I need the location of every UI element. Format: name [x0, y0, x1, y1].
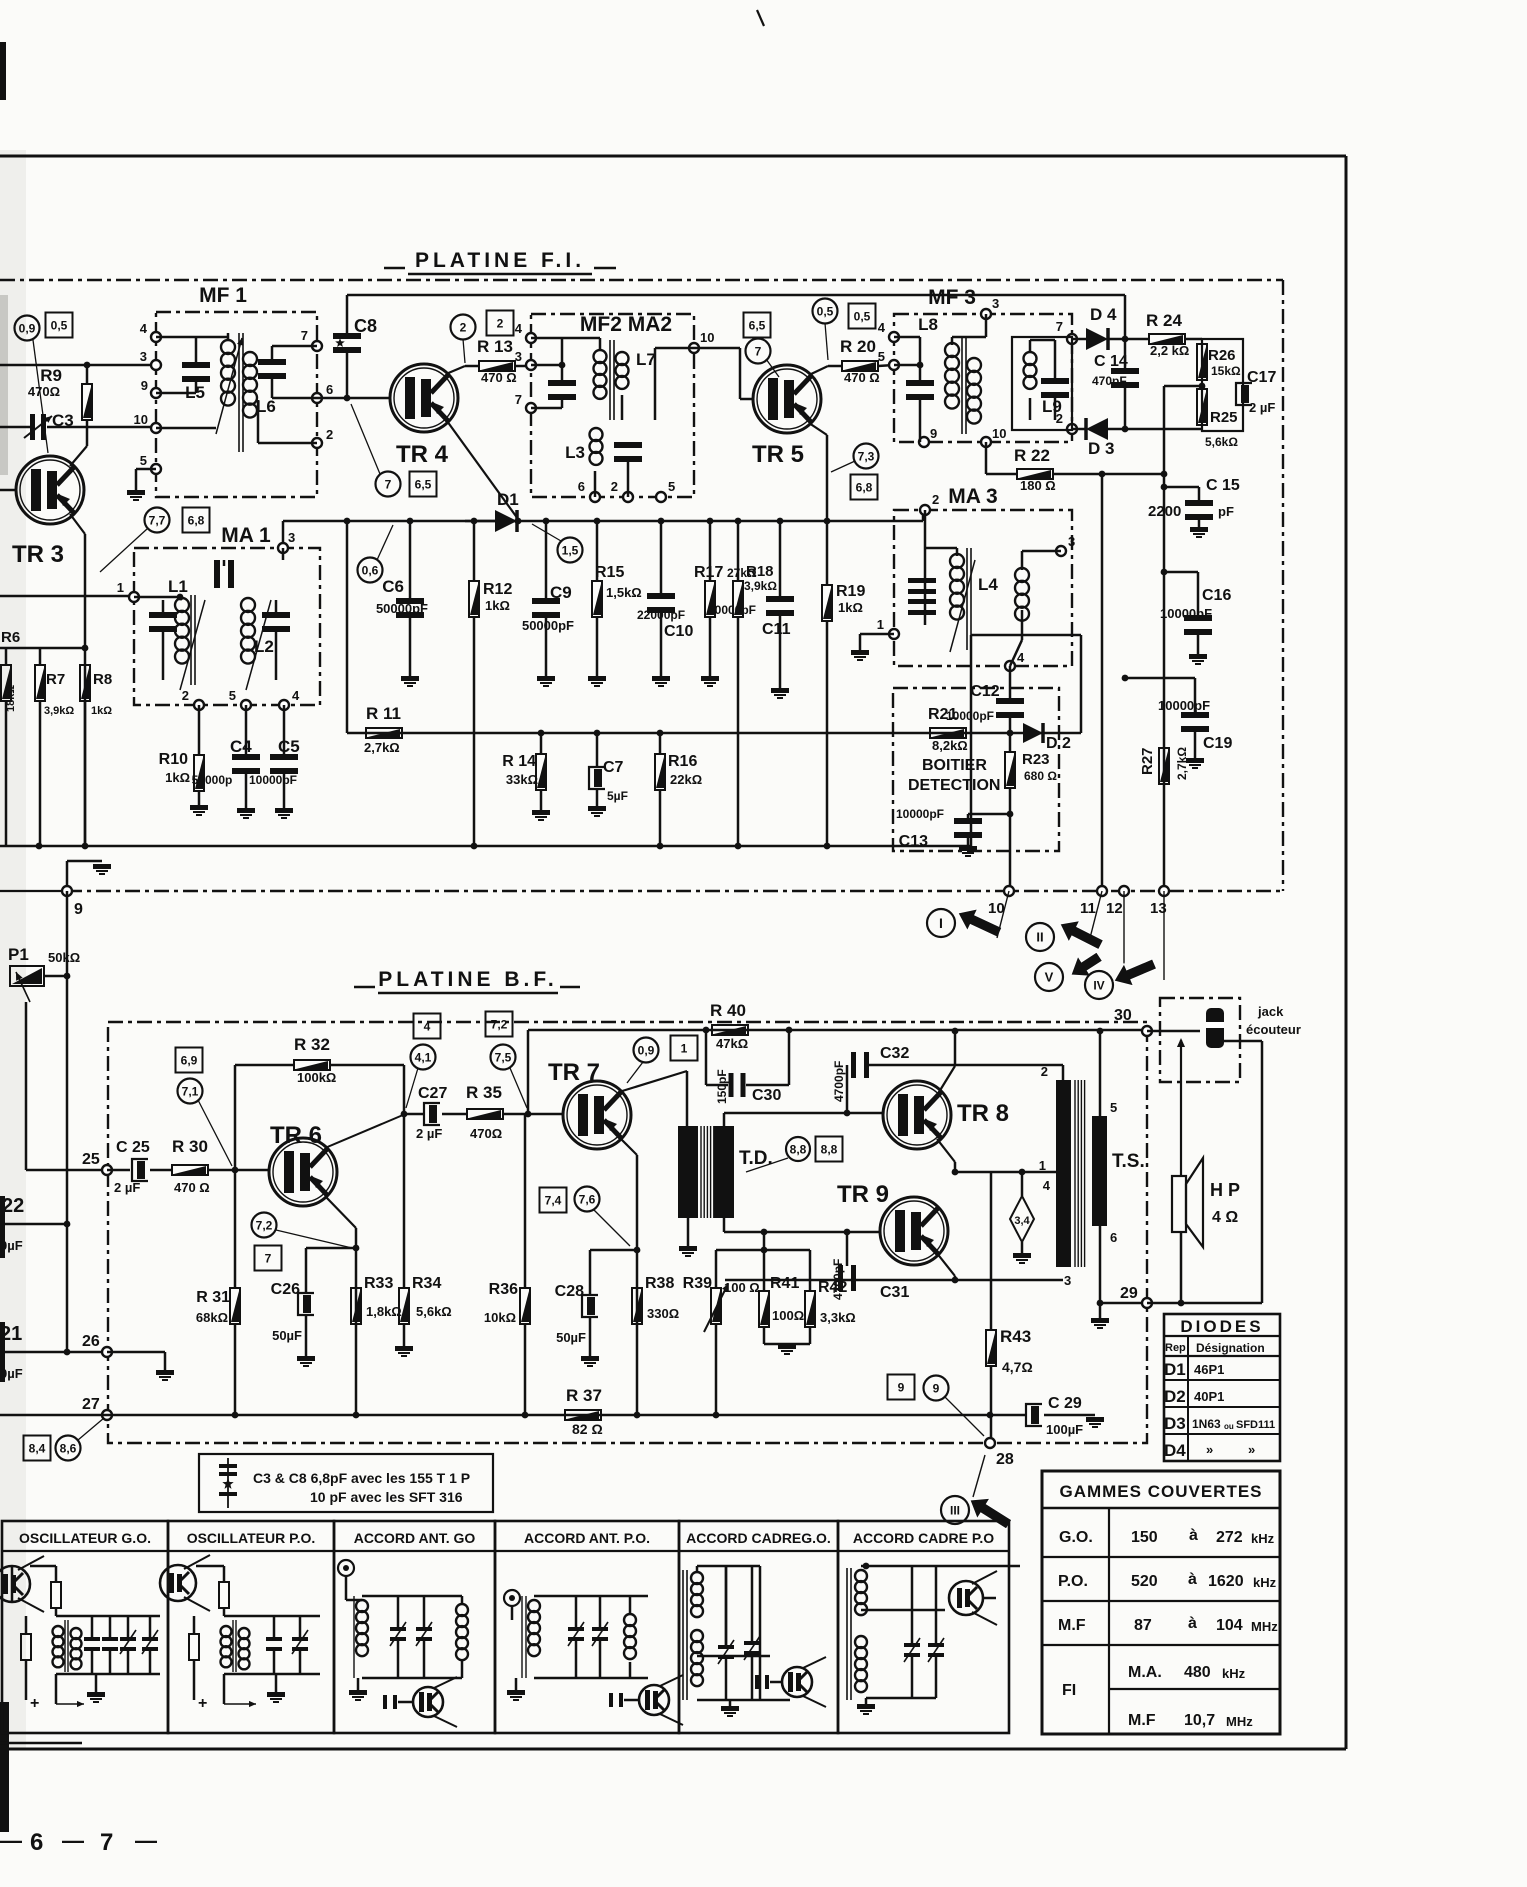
svg-text:C7: C7	[603, 759, 624, 776]
svg-text:TR 7: TR 7	[548, 1059, 600, 1086]
svg-text:4 Ω: 4 Ω	[1212, 1209, 1238, 1226]
svg-text:3,4: 3,4	[1014, 1215, 1030, 1227]
svg-text:3: 3	[992, 296, 999, 311]
svg-text:50µF: 50µF	[556, 1330, 586, 1345]
svg-text:6: 6	[326, 382, 333, 397]
svg-text:104: 104	[1216, 1617, 1243, 1634]
svg-text:10000pF: 10000pF	[1158, 698, 1210, 713]
svg-text:480: 480	[1184, 1664, 1211, 1681]
svg-text:IV: IV	[1093, 978, 1104, 992]
svg-text:C32: C32	[880, 1045, 909, 1062]
svg-text:C13: C13	[899, 833, 928, 850]
svg-text:R36: R36	[489, 1281, 518, 1298]
svg-text:10000pF: 10000pF	[249, 773, 297, 787]
svg-text:8,8: 8,8	[790, 1142, 807, 1156]
svg-text:470 Ω: 470 Ω	[174, 1180, 210, 1195]
svg-text:C12: C12	[970, 683, 999, 700]
svg-text:1: 1	[117, 580, 124, 595]
svg-text:9: 9	[930, 426, 937, 441]
svg-text:R12: R12	[483, 581, 512, 598]
svg-text:ACCORD CADREG.O.: ACCORD CADREG.O.	[686, 1530, 831, 1546]
svg-text:3: 3	[1064, 1273, 1071, 1288]
svg-text:1: 1	[681, 1041, 688, 1055]
svg-text:II: II	[1036, 930, 1043, 945]
svg-text:100µF: 100µF	[1046, 1422, 1083, 1437]
svg-text:4: 4	[1043, 1178, 1051, 1193]
svg-text:OSCILLATEUR G.O.: OSCILLATEUR G.O.	[19, 1530, 151, 1546]
svg-text:6,5: 6,5	[415, 477, 432, 491]
svg-text:1,5kΩ: 1,5kΩ	[606, 585, 642, 600]
svg-text:27: 27	[82, 1396, 100, 1413]
svg-text:2,7kΩ: 2,7kΩ	[364, 740, 400, 755]
svg-text:TR 4: TR 4	[396, 441, 449, 468]
svg-text:L3: L3	[565, 443, 585, 462]
svg-text:9: 9	[74, 901, 83, 918]
svg-text:jack: jack	[1257, 1004, 1284, 1019]
svg-text:R 14: R 14	[502, 753, 536, 770]
svg-text:R 22: R 22	[1014, 446, 1050, 465]
svg-text:2 µF: 2 µF	[416, 1126, 442, 1141]
svg-text:R 30: R 30	[172, 1137, 208, 1156]
svg-text:PLATINE F.I.: PLATINE F.I.	[415, 249, 585, 272]
svg-text:MF 3: MF 3	[928, 286, 976, 309]
svg-text:D3: D3	[1164, 1414, 1186, 1433]
svg-text:4: 4	[424, 1019, 431, 1033]
svg-text:C8: C8	[354, 316, 377, 336]
svg-text:68kΩ: 68kΩ	[196, 1310, 228, 1325]
svg-text:9: 9	[898, 1380, 905, 1394]
svg-text:40P1: 40P1	[1194, 1389, 1224, 1404]
svg-text:M.F: M.F	[1128, 1712, 1156, 1729]
svg-text:7: 7	[1056, 319, 1063, 334]
svg-text:H P: H P	[1210, 1180, 1240, 1200]
svg-text:82 Ω: 82 Ω	[572, 1421, 603, 1437]
svg-text:50kΩ: 50kΩ	[48, 950, 80, 965]
svg-text:150: 150	[1131, 1529, 1158, 1546]
svg-text:2: 2	[932, 492, 939, 507]
svg-text:29: 29	[1120, 1285, 1138, 1302]
svg-text:6,8: 6,8	[856, 480, 873, 494]
svg-text:SFD111: SFD111	[1236, 1419, 1275, 1431]
svg-text:1kΩ: 1kΩ	[91, 705, 112, 717]
svg-text:10: 10	[988, 900, 1005, 917]
svg-text:10: 10	[700, 330, 714, 345]
svg-text:+: +	[30, 1695, 39, 1712]
svg-text:C10: C10	[664, 623, 693, 640]
svg-text:M.A.: M.A.	[1128, 1664, 1162, 1681]
svg-text:C 14: C 14	[1094, 353, 1128, 370]
svg-text:22kΩ: 22kΩ	[670, 772, 702, 787]
svg-text:272: 272	[1216, 1529, 1243, 1546]
svg-text:R 37: R 37	[566, 1386, 602, 1405]
svg-text:C27: C27	[418, 1085, 447, 1102]
svg-text:T.S.: T.S.	[1112, 1151, 1145, 1172]
svg-text:MF2 MA2: MF2 MA2	[580, 313, 672, 336]
svg-text:7,6: 7,6	[579, 1192, 596, 1206]
svg-text:C3 & C8 6,8pF avec les 155 T: C3 & C8 6,8pF avec les 155 T 1 P	[253, 1470, 470, 1486]
svg-text:P.O.: P.O.	[1058, 1573, 1088, 1590]
svg-text:R43: R43	[1000, 1327, 1031, 1346]
svg-text:1kΩ: 1kΩ	[485, 598, 510, 613]
svg-text:520: 520	[1131, 1573, 1158, 1590]
svg-text:330Ω: 330Ω	[647, 1306, 679, 1321]
svg-text:7: 7	[265, 1251, 272, 1265]
svg-text:5,6kΩ: 5,6kΩ	[416, 1304, 452, 1319]
svg-text:TR 3: TR 3	[12, 541, 64, 568]
svg-text:6,5: 6,5	[749, 318, 766, 332]
svg-text:PLATINE B.F.: PLATINE B.F.	[378, 968, 557, 991]
svg-text:2: 2	[611, 479, 618, 494]
svg-text:MA 3: MA 3	[948, 485, 997, 508]
svg-text:1N63: 1N63	[1192, 1417, 1221, 1431]
svg-text:1,5: 1,5	[562, 543, 579, 557]
svg-text:R17: R17	[694, 564, 723, 581]
svg-text:46P1: 46P1	[1194, 1362, 1224, 1377]
svg-text:R21: R21	[928, 706, 957, 723]
svg-text:ACCORD ANT. P.O.: ACCORD ANT. P.O.	[524, 1530, 650, 1546]
svg-text:R 40: R 40	[710, 1001, 746, 1020]
svg-text:D2: D2	[1164, 1387, 1186, 1406]
svg-text:R10: R10	[159, 751, 188, 768]
svg-text:150pF: 150pF	[715, 1069, 729, 1104]
svg-text:R15: R15	[595, 564, 624, 581]
svg-text:5: 5	[1110, 1100, 1117, 1115]
svg-text:I: I	[939, 915, 943, 931]
svg-text:6,8: 6,8	[188, 513, 205, 527]
svg-text:—: —	[135, 1828, 157, 1853]
svg-text:TR 6: TR 6	[270, 1122, 322, 1149]
svg-text:ACCORD ANT. GO: ACCORD ANT. GO	[354, 1530, 476, 1546]
svg-text:11: 11	[1080, 900, 1096, 917]
svg-text:50000pF: 50000pF	[376, 601, 428, 616]
svg-text:7,3: 7,3	[858, 449, 875, 463]
svg-text:0,5: 0,5	[854, 309, 871, 323]
svg-text:III: III	[950, 1503, 960, 1517]
svg-text:470Ω: 470Ω	[470, 1126, 502, 1141]
svg-text:3: 3	[140, 349, 147, 364]
svg-text:P1: P1	[8, 945, 29, 964]
svg-text:L7: L7	[636, 350, 656, 369]
svg-text:5: 5	[878, 349, 885, 364]
svg-text:Rep: Rep	[1165, 1342, 1186, 1354]
svg-text:kHz: kHz	[1253, 1575, 1277, 1590]
svg-text:D 4: D 4	[1090, 305, 1117, 324]
svg-text:33kΩ: 33kΩ	[506, 772, 538, 787]
svg-text:C6: C6	[382, 577, 404, 596]
svg-text:50000p: 50000p	[192, 773, 233, 787]
svg-text:C28: C28	[555, 1283, 584, 1300]
svg-text:470 Ω: 470 Ω	[844, 370, 880, 385]
svg-text:pF: pF	[1218, 504, 1234, 519]
svg-text:R42: R42	[818, 1279, 847, 1296]
svg-text:100Ω: 100Ω	[772, 1308, 804, 1323]
svg-text:kHz: kHz	[1251, 1531, 1275, 1546]
svg-text:3: 3	[288, 530, 295, 545]
svg-text:C 25: C 25	[116, 1139, 150, 1156]
svg-text:28: 28	[996, 1451, 1014, 1468]
svg-text:50µF: 50µF	[272, 1328, 302, 1343]
svg-text:2 µF: 2 µF	[114, 1180, 140, 1195]
svg-text:8,4: 8,4	[29, 1441, 46, 1455]
svg-text:470 Ω: 470 Ω	[481, 370, 517, 385]
svg-text:R33: R33	[364, 1275, 393, 1292]
svg-text:R9: R9	[40, 366, 62, 385]
svg-text:100 Ω: 100 Ω	[724, 1280, 760, 1295]
svg-text:R 24: R 24	[1146, 311, 1182, 330]
svg-text:680 Ω: 680 Ω	[1024, 769, 1057, 783]
svg-text:4: 4	[140, 321, 148, 336]
svg-text:87: 87	[1134, 1617, 1152, 1634]
svg-text:Désignation: Désignation	[1196, 1341, 1265, 1355]
svg-text:C16: C16	[1202, 587, 1231, 604]
svg-text:1620: 1620	[1208, 1573, 1244, 1590]
svg-text:DIODES: DIODES	[1180, 1317, 1263, 1336]
svg-text:6: 6	[30, 1829, 43, 1856]
svg-text:+: +	[198, 1695, 207, 1712]
svg-text:C26: C26	[271, 1281, 300, 1298]
svg-text:R8: R8	[93, 671, 112, 688]
svg-text:30: 30	[1114, 1007, 1132, 1024]
svg-text:C31: C31	[880, 1284, 909, 1301]
svg-text:TR 9: TR 9	[837, 1181, 889, 1208]
svg-text:D 3: D 3	[1088, 439, 1114, 458]
svg-text:—: —	[62, 1828, 84, 1853]
svg-text:0,9: 0,9	[19, 321, 36, 335]
svg-text:C17: C17	[1247, 369, 1276, 386]
svg-text:DETECTION: DETECTION	[908, 777, 1000, 794]
svg-text:MA 1: MA 1	[221, 524, 271, 547]
svg-text:15kΩ: 15kΩ	[1211, 364, 1241, 378]
svg-text:R 32: R 32	[294, 1035, 330, 1054]
svg-text:8,6: 8,6	[60, 1441, 77, 1455]
svg-text:2: 2	[326, 427, 333, 442]
svg-text:D 2: D 2	[1046, 735, 1071, 752]
svg-text:5: 5	[668, 479, 675, 494]
svg-text:6: 6	[578, 479, 585, 494]
svg-text:7: 7	[100, 1829, 113, 1856]
svg-text:L5: L5	[185, 383, 205, 402]
svg-text:C5: C5	[278, 737, 300, 756]
svg-text:7: 7	[385, 477, 392, 491]
svg-text:4: 4	[292, 688, 300, 703]
svg-text:R 13: R 13	[477, 337, 513, 356]
svg-text:»: »	[1248, 1442, 1255, 1457]
svg-text:2,2 kΩ: 2,2 kΩ	[1150, 343, 1189, 358]
svg-text:ou: ou	[1224, 1422, 1234, 1431]
svg-text:10000pF: 10000pF	[1160, 606, 1212, 621]
svg-text:0,9: 0,9	[638, 1043, 655, 1057]
svg-text:10,7: 10,7	[1184, 1712, 1215, 1729]
svg-text:à: à	[1189, 1527, 1198, 1544]
svg-text:à: à	[1188, 1571, 1197, 1588]
svg-text:9: 9	[141, 378, 148, 393]
svg-text:5: 5	[229, 688, 236, 703]
svg-text:OSCILLATEUR P.O.: OSCILLATEUR P.O.	[187, 1530, 316, 1546]
svg-text:FI: FI	[1062, 1682, 1076, 1699]
svg-text:470pF: 470pF	[1092, 374, 1127, 388]
svg-text:18kΩ: 18kΩ	[5, 685, 17, 712]
svg-text:0,5: 0,5	[817, 304, 834, 318]
svg-text:ACCORD CADRE P.O: ACCORD CADRE P.O	[853, 1530, 994, 1546]
svg-text:L9: L9	[1042, 397, 1062, 416]
svg-text:10000pF: 10000pF	[896, 807, 944, 821]
svg-text:4: 4	[1017, 650, 1025, 665]
svg-text:M.F: M.F	[1058, 1617, 1086, 1634]
svg-text:R41: R41	[770, 1275, 799, 1292]
svg-text:1: 1	[877, 617, 884, 632]
svg-text:R26: R26	[1208, 347, 1236, 364]
svg-text:7,5: 7,5	[495, 1050, 512, 1064]
svg-text:à: à	[1188, 1615, 1197, 1632]
svg-text:4: 4	[515, 321, 523, 336]
svg-text:MHz: MHz	[1251, 1619, 1278, 1634]
svg-text:1,8kΩ: 1,8kΩ	[366, 1304, 402, 1319]
svg-text:4,1: 4,1	[415, 1050, 432, 1064]
svg-text:2200: 2200	[1148, 503, 1181, 520]
svg-text:T.D.: T.D.	[739, 1148, 773, 1169]
svg-text:C9: C9	[550, 583, 572, 602]
svg-text:MHz: MHz	[1226, 1714, 1253, 1729]
svg-text:3: 3	[1068, 534, 1075, 549]
svg-text:C11: C11	[762, 621, 791, 638]
svg-text:3: 3	[515, 349, 522, 364]
svg-text:L6: L6	[256, 397, 276, 416]
svg-text:7: 7	[301, 328, 308, 343]
svg-text:R38: R38	[645, 1275, 674, 1292]
svg-text:R 11: R 11	[366, 704, 401, 723]
svg-text:L8: L8	[918, 315, 938, 334]
svg-text:L1: L1	[168, 577, 188, 596]
svg-text:22: 22	[2, 1195, 24, 1217]
svg-text:D1: D1	[1164, 1360, 1186, 1379]
svg-text:5: 5	[140, 453, 147, 468]
svg-text:R39: R39	[683, 1275, 712, 1292]
svg-text:10 pF avec les SFT 316: 10 pF avec les SFT 316	[310, 1489, 463, 1505]
svg-text:4,7Ω: 4,7Ω	[1002, 1359, 1033, 1375]
svg-text:R 35: R 35	[466, 1083, 502, 1102]
svg-text:0,6: 0,6	[362, 563, 379, 577]
svg-text:10: 10	[992, 426, 1006, 441]
svg-text:0,5: 0,5	[51, 318, 68, 332]
svg-text:3,3kΩ: 3,3kΩ	[820, 1310, 856, 1325]
svg-text:8,2kΩ: 8,2kΩ	[932, 738, 968, 753]
svg-text:10kΩ: 10kΩ	[484, 1310, 516, 1325]
svg-text:1kΩ: 1kΩ	[838, 600, 863, 615]
svg-text:—: —	[0, 1828, 22, 1853]
svg-text:50000pF: 50000pF	[522, 618, 574, 633]
svg-text:2: 2	[182, 688, 189, 703]
svg-text:2: 2	[460, 320, 467, 334]
svg-text:D4: D4	[1164, 1441, 1186, 1460]
svg-text:6,9: 6,9	[181, 1053, 198, 1067]
svg-text:7: 7	[755, 344, 762, 358]
svg-text:R 31: R 31	[196, 1289, 230, 1306]
svg-text:3,9kΩ: 3,9kΩ	[744, 579, 777, 593]
svg-text:2 µF: 2 µF	[1249, 400, 1275, 415]
svg-text:R6: R6	[1, 629, 20, 646]
svg-text:5,6kΩ: 5,6kΩ	[1205, 435, 1238, 449]
svg-text:V: V	[1045, 970, 1054, 985]
svg-text:50000pF: 50000pF	[708, 603, 756, 617]
svg-text:R 20: R 20	[840, 337, 876, 356]
svg-text:R16: R16	[668, 753, 697, 770]
svg-text:R27: R27	[1139, 747, 1156, 775]
svg-text:1kΩ: 1kΩ	[165, 770, 190, 785]
svg-text:7,2: 7,2	[256, 1218, 273, 1232]
svg-text:47kΩ: 47kΩ	[716, 1036, 748, 1051]
svg-text:R23: R23	[1022, 751, 1050, 768]
svg-text:TR 5: TR 5	[752, 441, 804, 468]
svg-text:9: 9	[933, 1381, 940, 1395]
svg-text:470Ω: 470Ω	[28, 384, 60, 399]
svg-text:8,8: 8,8	[821, 1142, 838, 1156]
svg-text:BOITIER: BOITIER	[922, 757, 987, 774]
svg-text:180 Ω: 180 Ω	[1020, 478, 1056, 493]
svg-text:2: 2	[497, 316, 504, 330]
svg-text:L4: L4	[978, 575, 998, 594]
svg-text:R18: R18	[746, 563, 774, 580]
svg-text:1: 1	[1039, 1158, 1046, 1173]
svg-text:R34: R34	[412, 1275, 441, 1292]
svg-text:R7: R7	[46, 671, 65, 688]
svg-text:7: 7	[515, 392, 522, 407]
svg-text:kHz: kHz	[1222, 1666, 1246, 1681]
svg-text:GAMMES COUVERTES: GAMMES COUVERTES	[1059, 1482, 1262, 1501]
svg-text:7,7: 7,7	[149, 513, 166, 527]
svg-text:C30: C30	[752, 1087, 781, 1104]
svg-text:C4: C4	[230, 737, 252, 756]
svg-text:MF 1: MF 1	[199, 284, 247, 307]
svg-text:C 29: C 29	[1048, 1395, 1082, 1412]
svg-text:12: 12	[1106, 900, 1123, 917]
svg-text:2,7kΩ: 2,7kΩ	[1175, 747, 1189, 780]
svg-text:D1: D1	[497, 490, 519, 509]
svg-text:25: 25	[82, 1151, 100, 1168]
svg-text:7,2: 7,2	[491, 1017, 508, 1031]
svg-text:26: 26	[82, 1333, 100, 1350]
svg-text:22000pF: 22000pF	[637, 608, 685, 622]
svg-text:4700pF: 4700pF	[832, 1061, 846, 1102]
svg-text:»: »	[1206, 1442, 1213, 1457]
svg-text:TR 8: TR 8	[957, 1100, 1009, 1127]
svg-text:écouteur: écouteur	[1246, 1022, 1301, 1037]
svg-text:G.O.: G.O.	[1059, 1529, 1093, 1546]
svg-text:4: 4	[878, 320, 886, 335]
svg-text:C 15: C 15	[1206, 477, 1240, 494]
svg-text:7,4: 7,4	[545, 1193, 562, 1207]
svg-text:10: 10	[134, 412, 148, 427]
svg-text:5µF: 5µF	[607, 789, 628, 803]
svg-text:R25: R25	[1210, 409, 1238, 426]
svg-text:C19: C19	[1203, 735, 1232, 752]
svg-text:7,1: 7,1	[182, 1084, 199, 1098]
svg-text:3,9kΩ: 3,9kΩ	[44, 705, 74, 717]
svg-text:100kΩ: 100kΩ	[297, 1070, 336, 1085]
svg-text:R19: R19	[836, 583, 865, 600]
svg-text:6: 6	[1110, 1230, 1117, 1245]
